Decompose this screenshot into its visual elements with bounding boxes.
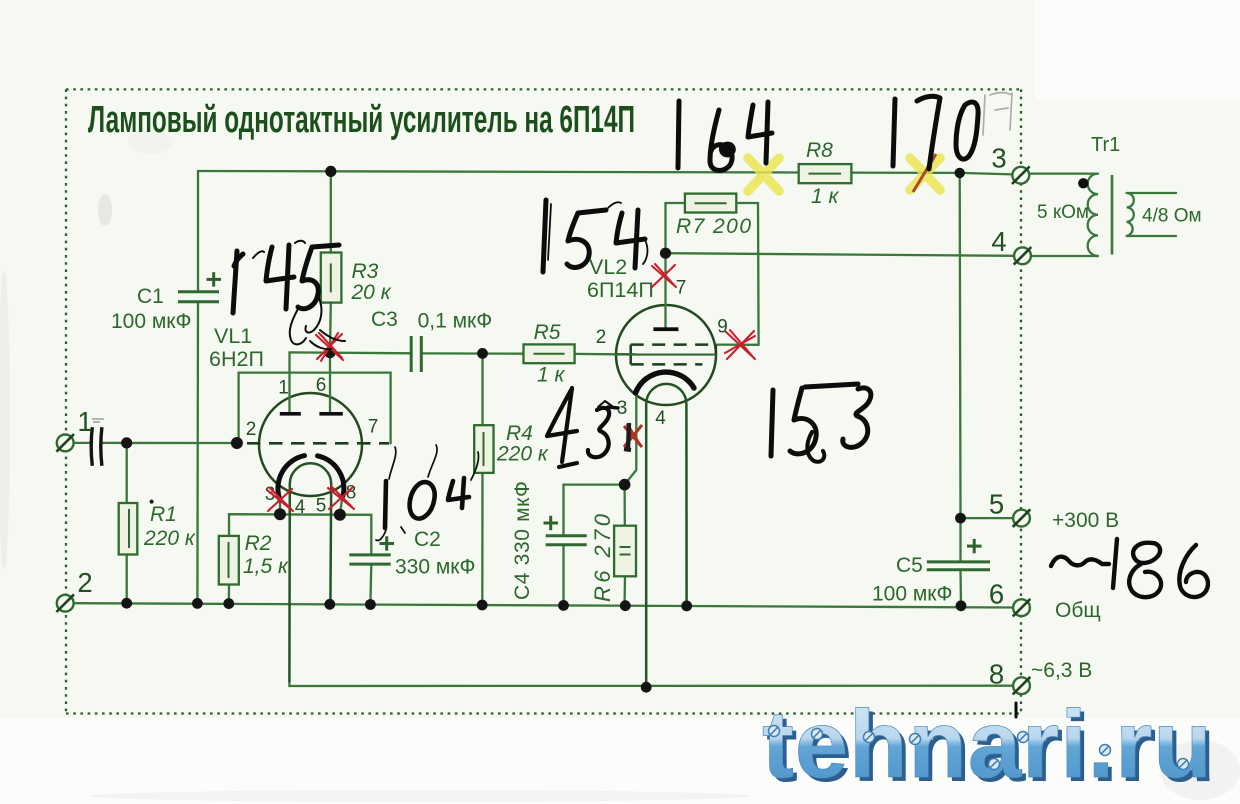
svg-text:6Н2П: 6Н2П <box>209 347 264 371</box>
svg-text:R6 270: R6 270 <box>590 513 615 602</box>
svg-text:5: 5 <box>316 496 327 517</box>
svg-text:C1: C1 <box>137 285 164 308</box>
svg-text:VL2: VL2 <box>589 255 627 279</box>
svg-text:220 к: 220 к <box>143 527 196 550</box>
svg-text:6: 6 <box>989 579 1004 610</box>
svg-text:~6,3 В: ~6,3 В <box>1031 659 1092 682</box>
svg-text:6: 6 <box>316 375 327 396</box>
svg-text:2: 2 <box>77 567 92 598</box>
svg-text:220 к: 220 к <box>496 443 549 466</box>
svg-text:Общ: Общ <box>1055 599 1101 622</box>
svg-text:8: 8 <box>989 659 1004 690</box>
svg-text:7: 7 <box>368 417 379 438</box>
svg-text:R8: R8 <box>806 139 833 162</box>
svg-text:1,5 к: 1,5 к <box>243 555 289 578</box>
svg-text:+300 В: +300 В <box>1052 509 1119 532</box>
svg-text:100 мкФ: 100 мкФ <box>872 583 952 606</box>
svg-text:1: 1 <box>77 406 92 437</box>
svg-text:20 к: 20 к <box>351 281 392 304</box>
svg-text:1 к: 1 к <box>537 364 566 387</box>
svg-text:R2: R2 <box>245 532 272 555</box>
svg-text:VL1: VL1 <box>214 324 252 348</box>
svg-text:4/8 Ом: 4/8 Ом <box>1142 206 1202 227</box>
svg-text:Ламповый однотактный усилитель: Ламповый однотактный усилитель на 6П14П <box>88 99 635 141</box>
svg-text:4: 4 <box>991 226 1006 257</box>
svg-text:Tr1: Tr1 <box>1091 134 1120 156</box>
svg-text:C3: C3 <box>371 308 398 331</box>
svg-text:5 кОм: 5 кОм <box>1037 202 1089 223</box>
svg-text:2: 2 <box>246 419 257 440</box>
svg-text:6П14П: 6П14П <box>587 278 654 302</box>
svg-text:100 мкФ: 100 мкФ <box>111 310 191 333</box>
svg-text:R3: R3 <box>352 260 379 283</box>
svg-text:330 мкФ: 330 мкФ <box>395 556 475 579</box>
svg-text:R1: R1 <box>150 503 177 526</box>
svg-text:C4 330 мкФ: C4 330 мкФ <box>511 481 534 600</box>
svg-text:C2: C2 <box>414 528 441 551</box>
svg-text:C5: C5 <box>896 554 923 577</box>
svg-text:tehnari.ru: tehnari.ru <box>762 691 1213 798</box>
svg-text:4: 4 <box>655 408 666 429</box>
svg-text:R7 200: R7 200 <box>676 215 751 238</box>
svg-text:9: 9 <box>717 317 728 338</box>
svg-text:1: 1 <box>278 378 289 399</box>
svg-text:4: 4 <box>295 497 306 518</box>
svg-text:3: 3 <box>991 143 1006 174</box>
svg-text:5: 5 <box>989 489 1004 520</box>
svg-text:0,1 мкФ: 0,1 мкФ <box>418 310 493 333</box>
svg-text:2: 2 <box>596 327 607 348</box>
svg-text:1 к: 1 к <box>811 185 840 208</box>
svg-text:R5: R5 <box>534 321 561 344</box>
svg-text:7: 7 <box>676 278 687 299</box>
